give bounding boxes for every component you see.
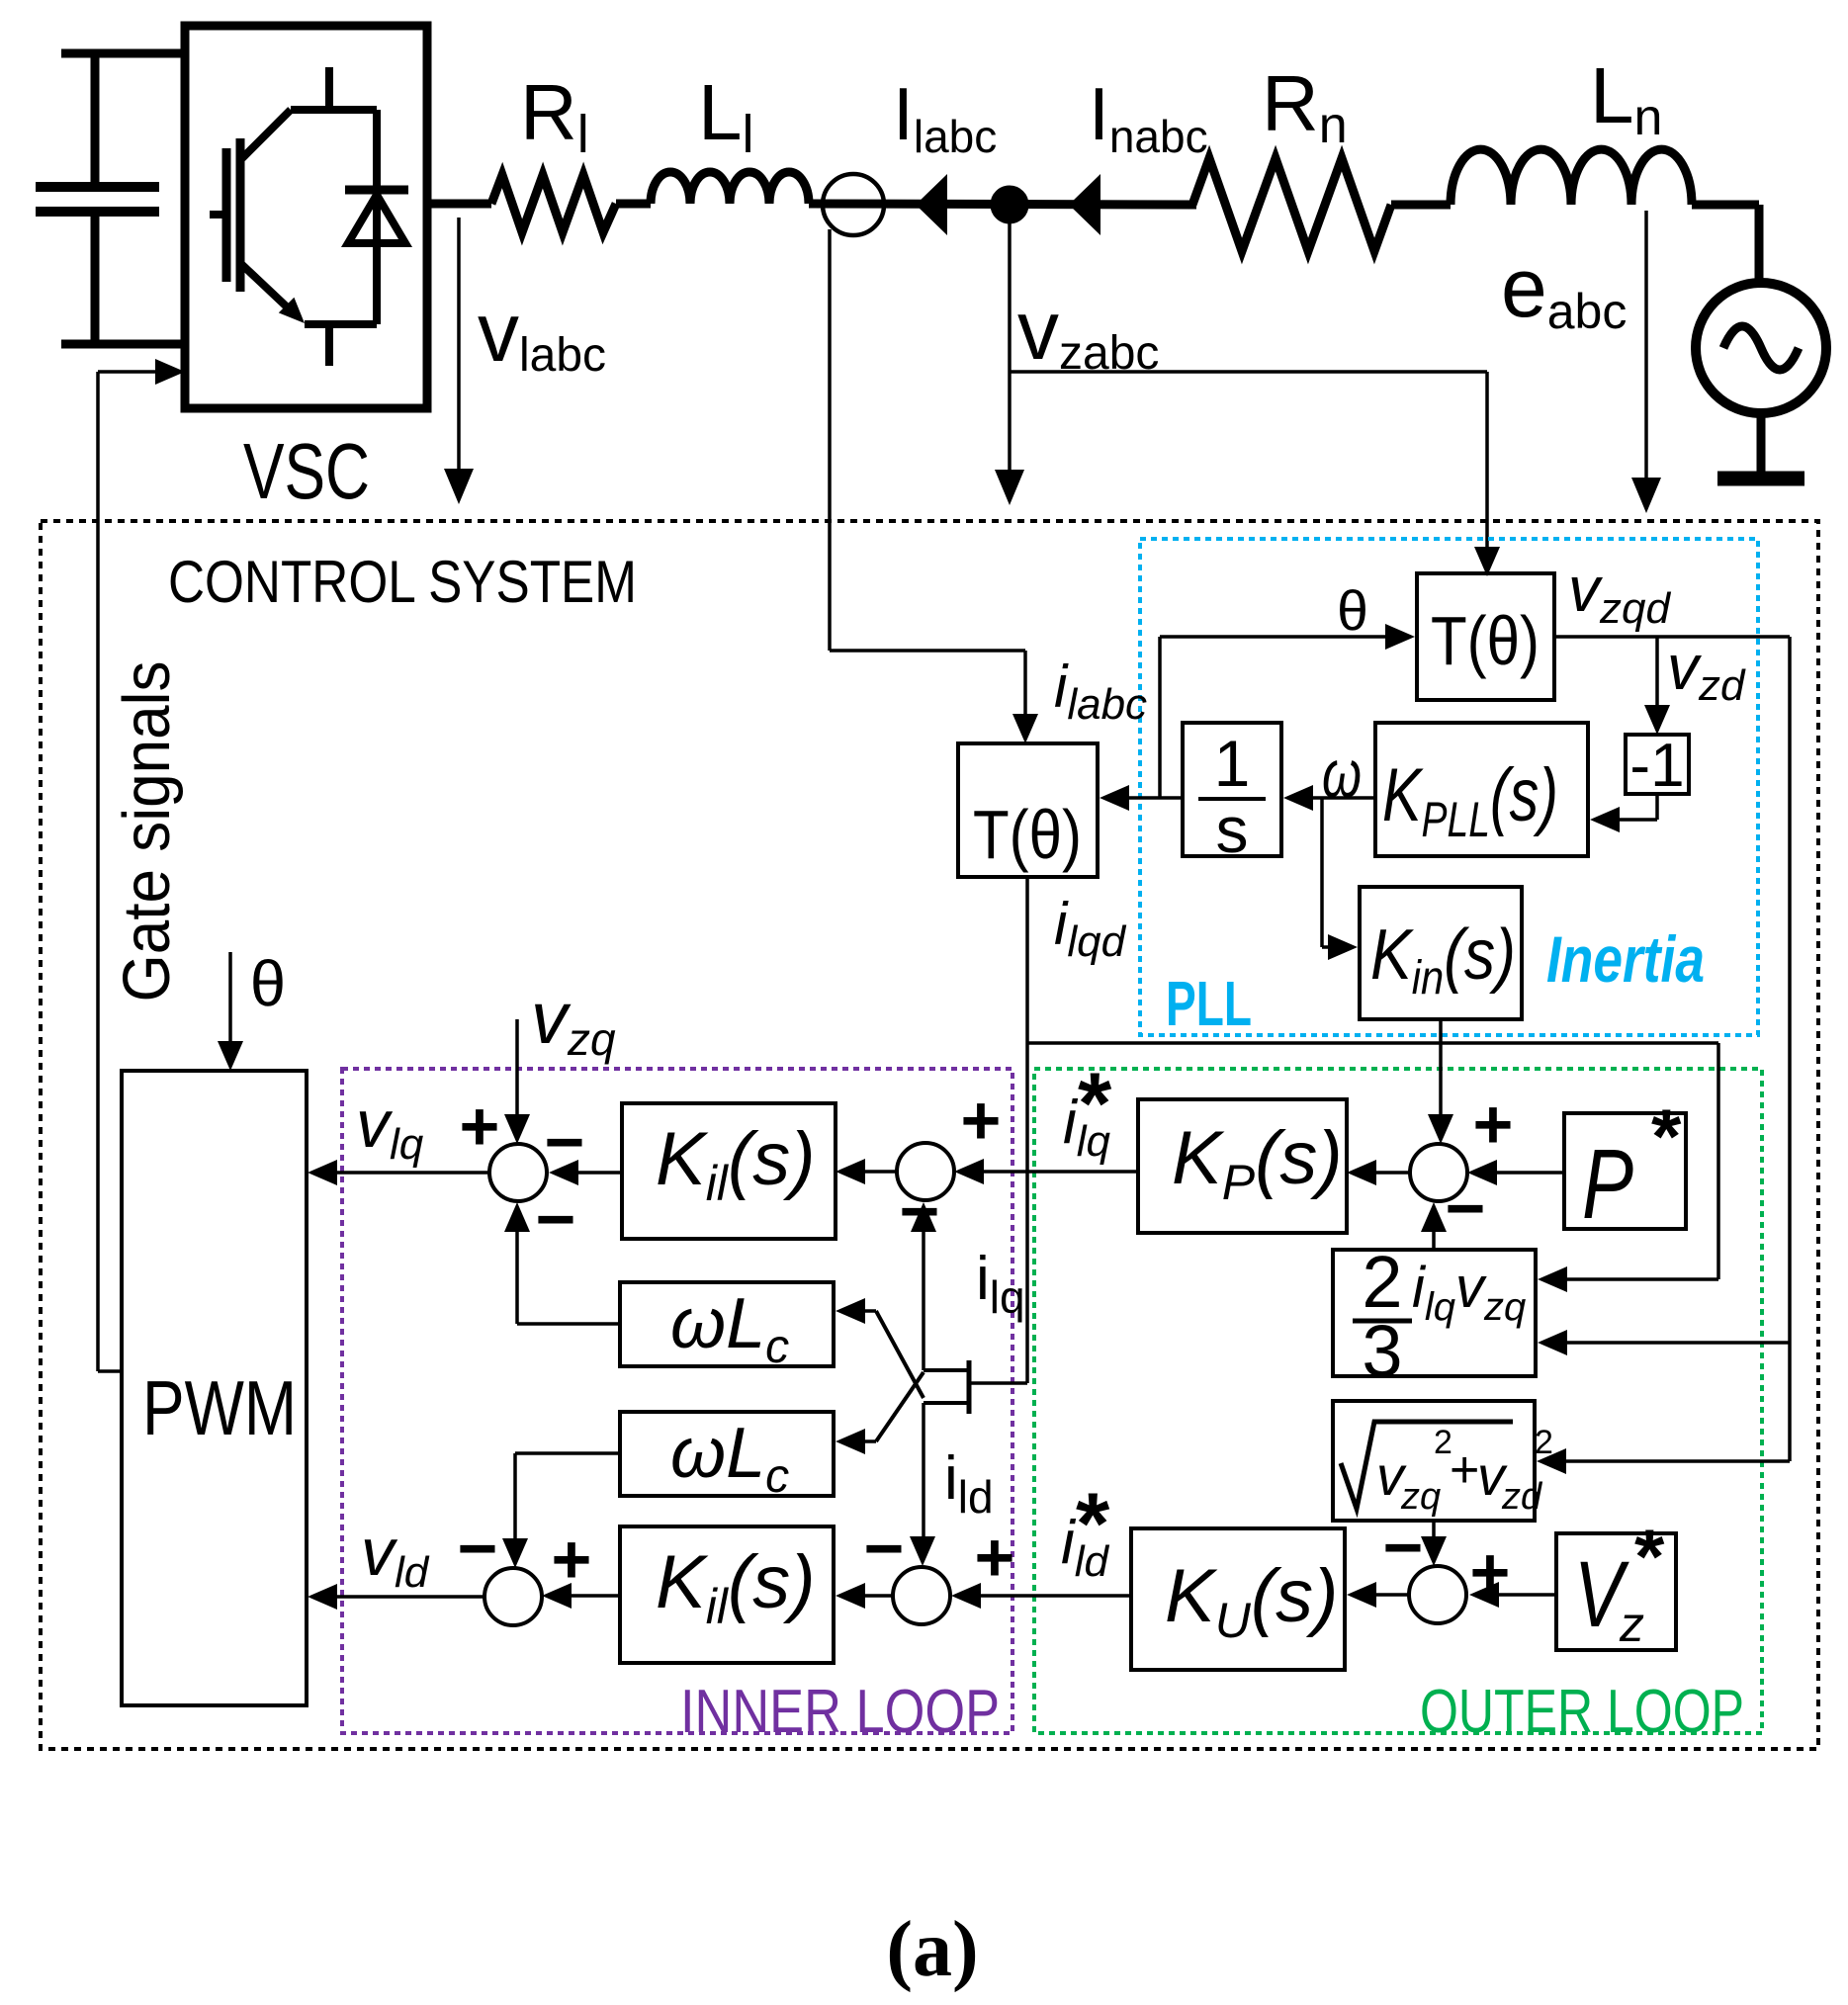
svg-text:*: * <box>1651 1092 1682 1179</box>
svg-text:−: − <box>545 1103 585 1180</box>
svg-text:KP(s): KP(s) <box>1172 1116 1343 1210</box>
svg-text:Kil(s): Kil(s) <box>656 1117 816 1211</box>
svg-text:+: + <box>961 1082 1002 1159</box>
svg-text:PLL: PLL <box>1166 968 1252 1039</box>
svg-text:−: − <box>536 1180 576 1258</box>
svg-text:CONTROL SYSTEM: CONTROL SYSTEM <box>168 549 637 615</box>
svg-text:ω: ω <box>1322 737 1362 812</box>
svg-text:+: + <box>1473 1086 1514 1163</box>
svg-text:+: + <box>975 1519 1015 1596</box>
svg-text:θ: θ <box>1337 579 1368 643</box>
svg-text:−: − <box>864 1510 905 1587</box>
svg-text:1: 1 <box>1214 727 1251 800</box>
svg-text:z: z <box>1619 1597 1644 1652</box>
svg-text:(a): (a) <box>886 1906 978 1993</box>
svg-text:-1: -1 <box>1629 732 1684 800</box>
svg-text:*: * <box>1634 1513 1665 1600</box>
svg-text:T(θ): T(θ) <box>1431 602 1540 679</box>
svg-text:3: 3 <box>1362 1310 1402 1392</box>
svg-text:OUTER LOOP: OUTER LOOP <box>1420 1678 1744 1746</box>
svg-text:−: − <box>1446 1170 1486 1247</box>
svg-text:θ: θ <box>250 947 286 1019</box>
svg-text:PWM: PWM <box>142 1364 297 1451</box>
svg-text:*: * <box>1078 1054 1112 1152</box>
svg-text:s: s <box>1216 793 1249 866</box>
svg-text:−: − <box>458 1510 498 1587</box>
svg-text:Kil(s): Kil(s) <box>656 1540 816 1634</box>
svg-text:+: + <box>460 1088 500 1165</box>
svg-text:−: − <box>1383 1509 1424 1586</box>
svg-text:+: + <box>552 1521 592 1598</box>
svg-text:T(θ): T(θ) <box>973 796 1082 873</box>
svg-text:INNER LOOP: INNER LOOP <box>680 1678 1000 1746</box>
svg-text:Inertia: Inertia <box>1546 922 1705 996</box>
svg-text:zd: zd <box>1501 1476 1543 1518</box>
svg-text:VSC: VSC <box>243 427 370 515</box>
svg-text:Gate signals: Gate signals <box>110 661 184 1002</box>
svg-text:*: * <box>1076 1474 1110 1572</box>
svg-text:Kin(s): Kin(s) <box>1370 915 1516 1004</box>
svg-text:+: + <box>1450 1441 1479 1499</box>
svg-text:KU(s): KU(s) <box>1165 1554 1338 1648</box>
svg-text:P: P <box>1582 1129 1633 1240</box>
svg-text:−: − <box>900 1173 940 1250</box>
